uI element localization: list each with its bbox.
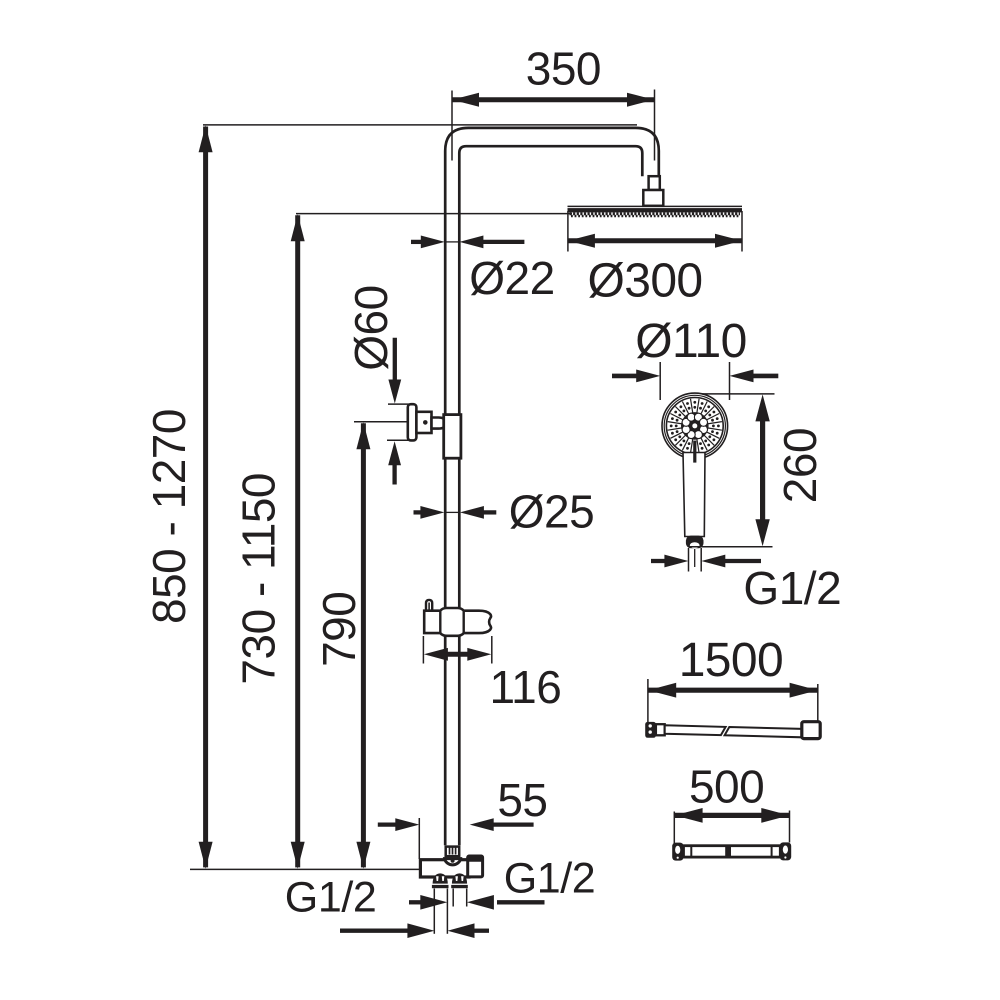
hand shower end cone (686, 536, 704, 549)
mixer body (420, 860, 469, 877)
wall bar joint lines (690, 846, 692, 857)
diverter elbow top band (466, 855, 484, 862)
wall bracket escutcheon plate (408, 404, 417, 440)
wall bar body (684, 846, 781, 857)
riser pipe with top arm outer contour (445, 128, 659, 845)
slider holder clamp divider (439, 611, 441, 633)
hand shower centre mark (693, 441, 696, 463)
svg-text:116: 116 (489, 661, 561, 713)
rain shower head nozzle hatching row 1 (570, 212, 741, 215)
svg-text:260: 260 (774, 428, 826, 503)
hand shower nozzle dots (712, 425, 715, 428)
dim Ø25 right arrow (481, 510, 496, 514)
dim 730-1150 line (295, 215, 300, 867)
svg-text:G1/2: G1/2 (285, 874, 377, 922)
dim 350 extension right (654, 90, 656, 161)
hose right fitting (802, 722, 820, 739)
dim Ø60 down arrow (393, 338, 397, 383)
nut dim extension lines left nut (433, 889, 435, 934)
inlet nut left G1/2 (433, 873, 448, 883)
rain shower head plate top line (568, 205, 743, 207)
dim 55 right arrow (492, 822, 534, 826)
ext line head level datum (296, 213, 572, 215)
dim 116 arrows (446, 652, 469, 657)
rain shower head nozzle hatching row 2 (571, 215, 739, 217)
slider holder body (424, 608, 491, 636)
dim 1500 line (648, 688, 817, 693)
dim 260 line (760, 420, 765, 521)
svg-text:Ø22: Ø22 (469, 252, 554, 304)
svg-text:G1/2: G1/2 (504, 854, 596, 902)
svg-text:790: 790 (313, 592, 365, 667)
hose tube first segment (665, 725, 726, 735)
dim Ø22 thin line across pipe (445, 241, 460, 243)
slider holder lock lever (426, 600, 432, 611)
wall bar left end cap (672, 843, 683, 861)
dim 500 extension left (673, 812, 675, 844)
nipple dome centre dot (451, 859, 455, 863)
svg-text:500: 500 (689, 760, 764, 812)
svg-text:730 - 1150: 730 - 1150 (233, 473, 285, 685)
hand shower dark hub (681, 412, 709, 440)
svg-text:Ø60: Ø60 (345, 285, 397, 370)
hand shower centre hole (692, 423, 697, 428)
svg-text:850 - 1270: 850 - 1270 (143, 409, 195, 624)
dim Ø110 left arrow (612, 374, 638, 379)
dim 350 line with arrows (452, 97, 654, 102)
dim Ø60 tick bottom (387, 439, 410, 441)
svg-text:Ø300: Ø300 (587, 255, 702, 308)
inlet nut right G1/2 (452, 873, 467, 883)
rain shower head plate body (568, 208, 743, 212)
hose tube second segment (725, 727, 802, 737)
hand shower face outer circles (662, 393, 728, 459)
dim Ø300 extension right (741, 211, 743, 252)
shower arm ball joint neck (649, 176, 660, 190)
hand G1/2 arrows (651, 559, 666, 563)
ext line mixer centre datum (190, 868, 435, 870)
hand shower spoke ring (708, 428, 722, 430)
svg-text:350: 350 (526, 43, 601, 95)
upper G1/2 dim arrows (409, 900, 423, 904)
shower arm connection nut (643, 190, 663, 206)
dim 116 extension right (491, 636, 493, 664)
hand G1/2 extension lines (688, 548, 690, 572)
dim 1500 extension left (647, 679, 649, 724)
svg-text:Ø25: Ø25 (509, 486, 594, 538)
dim 116 extension left (422, 636, 424, 664)
dim Ø110 right arrow (752, 374, 778, 379)
dim Ø60 tick top (388, 403, 410, 405)
riser pipe inner contour (459, 146, 642, 845)
wall bar right end cap (780, 842, 792, 860)
wall bar slider block (725, 847, 731, 856)
nipple thread lines (449, 848, 451, 855)
dim 260 extension top (702, 393, 775, 395)
dim Ø25 left arrow (414, 510, 424, 514)
wall bracket arm cylinder (432, 418, 446, 429)
svg-text:Ø110: Ø110 (635, 315, 746, 368)
dim Ø60 up arrow (392, 463, 396, 485)
slider holder grip divider (463, 611, 465, 633)
dim 500 extension right (789, 811, 791, 843)
svg-text:G1/2: G1/2 (743, 562, 841, 614)
dim 850-1270 line (203, 127, 208, 868)
wall bracket block (416, 412, 431, 433)
hand shower petal nozzles (white holes) (700, 426, 708, 434)
dim Ø300 line (568, 238, 742, 243)
ext line top datum (203, 124, 637, 126)
riser to mixer threaded nipple (446, 847, 460, 857)
svg-text:55: 55 (497, 774, 547, 826)
nipple dome into body (445, 859, 461, 865)
dim Ø22 left arrow (411, 240, 423, 244)
riser sleeve joint (444, 415, 461, 459)
dim 1500 extension right (817, 684, 819, 725)
dim Ø110 extension left (659, 362, 661, 400)
svg-text:1500: 1500 (679, 634, 783, 687)
dim Ø25 thin line across pipe (444, 511, 460, 513)
diverter elbow outlet (468, 856, 483, 877)
hose left collar (656, 724, 665, 735)
dim 790 line (361, 423, 366, 867)
dim Ø110 extension right (729, 362, 731, 400)
dim 500 line (675, 813, 790, 818)
dim 55 extension line (418, 818, 420, 859)
hand G1/2 centre tick (694, 549, 696, 567)
dim Ø300 extension left (567, 211, 569, 252)
dim 350 extension left (451, 91, 453, 161)
dim Ø22 right arrow (482, 240, 524, 244)
lower G1/2 dim arrows (340, 929, 409, 933)
hand shower handle (683, 453, 705, 537)
dim 260 extension bottom (688, 546, 773, 548)
ext line bracket level datum (354, 421, 424, 423)
wall bracket screw dot (423, 420, 428, 425)
nut dim extension lines right nut (452, 889, 454, 907)
dim 55 left arrow (378, 822, 397, 826)
hose left conical nut (645, 722, 656, 738)
